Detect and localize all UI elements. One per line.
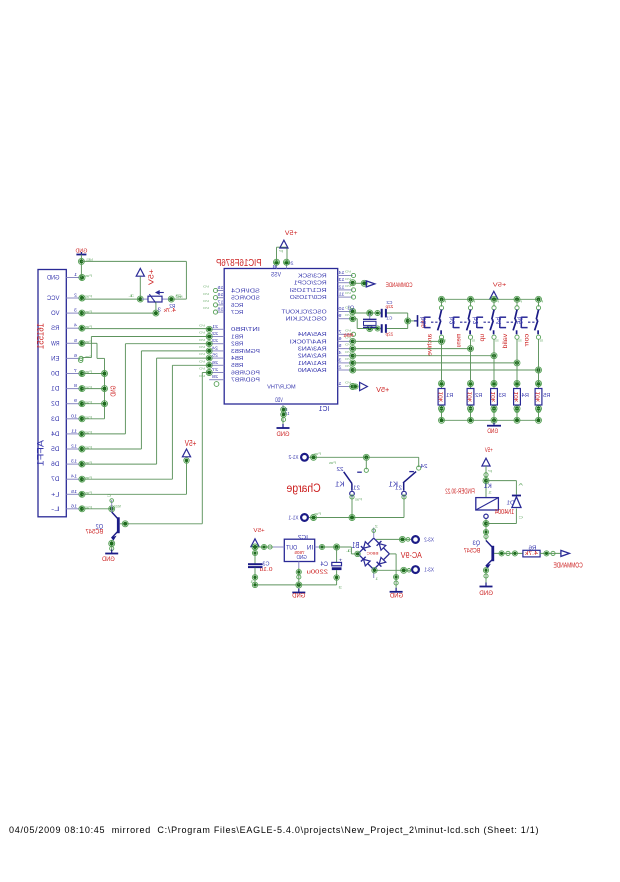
svg-text:b2: b2 [448, 317, 457, 325]
svg-text:Pas: Pas [84, 274, 92, 278]
wire +5V rail switch bank [439, 296, 542, 302]
wire L- pin16 to Q2 collector [82, 506, 115, 512]
wire RA to switch column b4 [353, 360, 520, 366]
svg-text:K1: K1 [483, 483, 491, 490]
IC1 pin 28 RB7 open circle [214, 382, 219, 387]
svg-text:11: 11 [338, 292, 345, 297]
svg-text:10: 10 [71, 413, 77, 419]
svg-text:2200u: 2200u [307, 569, 329, 575]
wire +5V to relay coil K1 [251, 466, 517, 590]
crystal Q1 [363, 313, 377, 329]
svg-text:15: 15 [71, 489, 77, 495]
svg-text:14: 14 [338, 270, 345, 275]
AFF1 pin 12 D5 [51, 444, 92, 454]
svg-text:1: 1 [375, 577, 378, 581]
svg-text:I/O: I/O [344, 364, 351, 368]
supply +5V at relay coil [482, 447, 493, 466]
svg-text:D6: D6 [51, 461, 60, 468]
svg-text:RB4: RB4 [231, 356, 243, 362]
svg-text:I/O: I/O [344, 270, 351, 274]
Q2 value BC547 [85, 529, 103, 536]
svg-text:I/O: I/O [344, 277, 351, 281]
AFF1 pin 5 RW [50, 338, 92, 348]
svg-text:RC7: RC7 [231, 310, 243, 316]
svg-text:I/O: I/O [198, 323, 205, 327]
IC1 pin 18 RC7 [202, 306, 243, 316]
svg-text:COMMANDE: COMMANDE [553, 561, 582, 569]
connector X1-1 pad [289, 512, 322, 521]
IC1 pin 4 RA2/AN2 [298, 350, 356, 360]
svg-text:EN: EN [51, 355, 60, 362]
microcontroller IC1 PIC16F876P box [224, 269, 338, 405]
AFF1 value label 161551 [36, 323, 46, 349]
IC1 pin 7 RA5/AN4 [298, 328, 356, 338]
wire +5V to IC2 OUT [252, 544, 273, 550]
svg-text:I/O: I/O [344, 284, 351, 288]
connector X3-1 pad [412, 566, 434, 573]
svg-text:13: 13 [71, 459, 77, 465]
svg-text:GND: GND [102, 556, 115, 563]
svg-text:GND: GND [75, 249, 87, 255]
AFF1 pin 4 RS [50, 323, 92, 333]
wire column b4 to resistor [514, 340, 520, 421]
svg-text:7: 7 [74, 368, 77, 374]
ground symbol GND at Q3 [479, 583, 493, 598]
svg-text:1N4004: 1N4004 [495, 509, 514, 516]
trimmer R2 [127, 291, 182, 314]
resistor R4 10k [514, 389, 529, 406]
b1 value archive [427, 334, 434, 357]
svg-text:11: 11 [71, 428, 77, 434]
svg-text:Pas: Pas [329, 461, 336, 465]
svg-text:VSS: VSS [271, 273, 281, 279]
svg-text:22p: 22p [385, 304, 393, 310]
svg-text:12: 12 [71, 444, 77, 450]
svg-text:OSC1/CLKIN: OSC1/CLKIN [286, 317, 327, 323]
svg-text:GND: GND [487, 428, 498, 435]
svg-text:27: 27 [211, 367, 218, 372]
svg-text:PGC/RB6: PGC/RB6 [231, 370, 260, 376]
capacitor C4 2200u polarized [307, 547, 343, 585]
svg-text:6: 6 [338, 336, 342, 341]
svg-text:K1: K1 [335, 481, 345, 488]
wire ground rail switch bank [439, 417, 542, 425]
svg-text:P: P [518, 299, 522, 303]
b1 name label [419, 317, 428, 325]
svg-text:1: 1 [338, 381, 342, 386]
svg-text:23: 23 [211, 338, 218, 343]
K1 value FINDER-30.22 [445, 488, 474, 496]
svg-text:C4: C4 [320, 562, 328, 568]
svg-text:BC547: BC547 [464, 548, 481, 555]
supply +5V near R2 [136, 268, 155, 285]
capacitor C1 [382, 316, 394, 338]
wire EN pin6 to PIC RB1 with open pin circle [79, 337, 210, 363]
svg-text:R2: R2 [475, 393, 482, 399]
wire X1-2 top rail [309, 454, 419, 460]
svg-text:10k: 10k [514, 392, 520, 403]
net label COMMANDE lower [553, 561, 582, 569]
IC1 pin 25 RB4 [198, 352, 243, 362]
svg-text:10k: 10k [439, 392, 445, 403]
svg-text:18: 18 [217, 307, 224, 312]
IC1 name label [319, 404, 330, 413]
svg-text:D2: D2 [51, 401, 60, 408]
AFF1 pin 14 D7 [51, 474, 92, 484]
svg-text:Q1: Q1 [348, 306, 355, 312]
svg-text:Pas: Pas [314, 452, 321, 456]
IC1 pin 14 RC3/SCK [298, 270, 356, 280]
svg-text:R3: R3 [499, 393, 506, 399]
svg-text:5: 5 [338, 343, 342, 348]
supply +5V at MCLR [360, 382, 390, 394]
svg-text:N$1: N$1 [86, 258, 93, 262]
svg-text:R1: R1 [446, 393, 453, 399]
wire PIC RB6 to Q2 base [120, 373, 209, 527]
net stub labels small [86, 258, 352, 553]
wire column b3 to resistor [491, 340, 497, 421]
port arrow COMMANDE lower [561, 550, 570, 556]
svg-text:9: 9 [74, 398, 77, 404]
b3 value up [479, 334, 486, 342]
svg-text:valid: valid [502, 334, 509, 349]
svg-text:PIC16F876P: PIC16F876P [216, 258, 262, 269]
supply +5V above switch bank [490, 283, 507, 300]
svg-text:I/O: I/O [202, 306, 209, 310]
svg-text:161551: 161551 [36, 323, 46, 349]
svg-text:3: 3 [338, 357, 342, 362]
svg-text:RB2: RB2 [231, 342, 243, 348]
svg-text:B80C: B80C [366, 551, 379, 555]
svg-text:10k: 10k [468, 392, 474, 403]
svg-text:RB5: RB5 [231, 363, 243, 369]
svg-text:0.1u: 0.1u [259, 567, 272, 573]
svg-text:SDO/RC5: SDO/RC5 [231, 296, 260, 302]
svg-text:b5: b5 [516, 317, 525, 325]
AFF1 pin 3 VO [51, 308, 92, 318]
svg-text:BC547: BC547 [85, 529, 103, 536]
svg-text:21: 21 [211, 324, 218, 329]
wire VCC pin2 to +5V and R2 [82, 277, 143, 303]
wire net RW D0-D3 GND bus [82, 343, 108, 419]
bridge rectifier B1 [358, 524, 389, 581]
IC1 pin 13 RC2/CCP1 [294, 277, 356, 287]
b4 value valid [502, 334, 509, 349]
svg-text:S: S [472, 339, 476, 343]
svg-text:26: 26 [211, 360, 218, 365]
ground symbol GND at IC2 [292, 589, 306, 600]
wire RA to switch column b1 [353, 338, 445, 344]
svg-text:9: 9 [338, 313, 342, 318]
svg-text:RA1/AN1: RA1/AN1 [298, 361, 327, 367]
IC2 value 7805 [294, 550, 305, 555]
svg-text:Pas: Pas [84, 295, 92, 299]
svg-text:+5V: +5V [493, 283, 507, 289]
connector X1-2 pad [289, 452, 322, 461]
svg-text:GND: GND [389, 593, 403, 600]
wire D6 pin13 to PIC RB4 [82, 358, 209, 464]
svg-text:RW: RW [50, 340, 59, 347]
plot footer text [9, 825, 539, 835]
svg-text:2: 2 [74, 293, 77, 299]
svg-text:4: 4 [338, 350, 342, 355]
svg-text:PGD/RB7: PGD/RB7 [231, 378, 260, 384]
svg-text:SDI/RC4: SDI/RC4 [231, 288, 260, 294]
svg-text:FINDER-30.22: FINDER-30.22 [445, 488, 474, 496]
svg-text:I/O: I/O [344, 343, 351, 347]
svg-text:GND: GND [292, 593, 306, 600]
svg-text:3: 3 [339, 586, 343, 590]
switch b2 [453, 299, 475, 342]
voltage regulator IC2 7805 box [273, 539, 322, 568]
svg-text:Pas: Pas [314, 512, 321, 516]
wire RA to switch column b2 [353, 346, 474, 352]
svg-text:INT/RB0: INT/RB0 [231, 327, 260, 333]
svg-text:X3-2: X3-2 [424, 537, 434, 543]
IC1 pin 17 RC6 [202, 299, 243, 309]
svg-text:VDD: VDD [275, 398, 283, 404]
svg-text:RA0/AN0: RA0/AN0 [298, 368, 327, 374]
supply +5V above IC1 [280, 230, 298, 248]
svg-text:15: 15 [217, 285, 224, 290]
B1 value [366, 551, 379, 555]
svg-text:25: 25 [211, 353, 218, 358]
connector AFF1 LCD module box [38, 270, 66, 517]
IC1 pin 3 RA1/AN1 [298, 357, 356, 367]
switch b3 [477, 299, 499, 342]
IC1 pin 16 SDO/RC5 [202, 292, 260, 302]
IC1 pin 24 PGM/RB3 [198, 345, 260, 355]
svg-text:2: 2 [338, 365, 342, 370]
AFF1 pin 6 EN [51, 353, 92, 363]
wire column b1 to resistor [439, 340, 445, 421]
wire IC2 IN net [319, 544, 356, 554]
IC1 VDD VSS top pins [271, 247, 294, 279]
wire bridge minus to ground [389, 554, 398, 589]
svg-text:17: 17 [217, 299, 224, 304]
svg-text:+5V: +5V [149, 269, 156, 285]
resistor R1 10k [438, 389, 453, 406]
ground symbol GND at bridge [389, 588, 403, 600]
svg-text:VCC: VCC [47, 295, 60, 302]
IC1 pin 1 MCLR/THV [267, 381, 356, 391]
wire wiper to VO pin3 [82, 302, 159, 316]
svg-text:R6: R6 [528, 545, 536, 551]
svg-text:B1: B1 [352, 540, 360, 550]
IC1 VSS bottom pin [275, 398, 290, 424]
svg-text:D0: D0 [51, 371, 60, 378]
wire D7 pin14 to PIC RB5 [82, 365, 209, 479]
svg-text:RC3/SCK: RC3/SCK [298, 273, 327, 279]
svg-text:IC1: IC1 [319, 404, 330, 413]
svg-text:MCLR/THV: MCLR/THV [267, 384, 296, 390]
wire column b5 to resistor [536, 340, 542, 421]
wire AC X3-2 [376, 536, 411, 542]
svg-text:+5V: +5V [184, 438, 196, 448]
svg-text:14: 14 [71, 474, 77, 480]
wire MCLR to +5V [353, 384, 358, 389]
wire Q2 emitter to ground [109, 540, 115, 551]
relay contact K1 second [395, 457, 428, 499]
R2 value 4.7k [163, 308, 176, 314]
svg-text:I/O: I/O [198, 359, 205, 363]
svg-text:I/O: I/O [344, 291, 351, 295]
b2 value menu [456, 334, 463, 348]
svg-text:L+: L+ [51, 491, 60, 498]
capacitor C3 0.1u [248, 550, 273, 585]
wire L+ pin15 to +5V [82, 462, 187, 494]
svg-text:1: 1 [127, 294, 135, 298]
transistor Q3 [486, 541, 493, 569]
svg-text:I/O: I/O [344, 381, 351, 385]
svg-text:P: P [443, 299, 447, 303]
svg-text:K1: K1 [388, 482, 398, 489]
svg-text:I/O: I/O [198, 352, 205, 356]
relay contact K1 first [329, 457, 369, 501]
wire RS pin4 to PIC RB0 [82, 328, 209, 330]
IC1 pin 26 RB5 [198, 359, 243, 369]
net label COMMANDE upper [386, 282, 413, 289]
wire AC X3-1 [372, 567, 411, 573]
svg-text:16: 16 [217, 292, 224, 297]
b4 name label [494, 317, 503, 325]
svg-text:+5V: +5V [253, 528, 265, 534]
IC1 pin 9 OSC1/CLKIN [286, 313, 356, 323]
ground symbol GND at Q2 [102, 550, 119, 564]
svg-text:I/O: I/O [202, 299, 209, 303]
svg-text:RC0/T1OSO: RC0/T1OSO [289, 295, 327, 301]
supply +5V at regulator output [251, 528, 265, 546]
svg-text:RC6: RC6 [231, 303, 243, 309]
svg-text:P: P [540, 299, 544, 303]
svg-text:4: 4 [74, 323, 77, 329]
ground symbol GND switch bank [487, 423, 501, 435]
IC1 pin 23 RB2 [198, 338, 243, 348]
svg-text:I/O: I/O [344, 328, 351, 332]
wire RA to switch column b3 [353, 353, 497, 359]
svg-text:D3: D3 [51, 416, 60, 423]
svg-text:GND: GND [110, 386, 117, 397]
transistor Q2 [106, 494, 118, 540]
svg-text:PGM/RB3: PGM/RB3 [231, 349, 260, 355]
svg-text:P: P [472, 299, 476, 303]
ground symbol GND at crystal [414, 315, 428, 328]
svg-text:R5: R5 [543, 393, 550, 399]
svg-text:22: 22 [337, 467, 344, 473]
svg-text:7: 7 [338, 329, 342, 334]
svg-text:C1: C1 [386, 316, 392, 321]
svg-text:6: 6 [74, 353, 77, 359]
resistor R5 10k [535, 389, 550, 406]
svg-text:up: up [479, 334, 486, 342]
IC2 name label [298, 535, 308, 541]
wire crystal caps to ground [405, 313, 417, 329]
svg-text:archive: archive [427, 334, 434, 357]
svg-text:N$16: N$16 [114, 504, 121, 508]
svg-text:10k: 10k [536, 392, 542, 403]
port arrow COMMANDE upper [366, 281, 375, 287]
AFF1 pin 10 D3 [51, 413, 92, 423]
IC1 pin 2 RA0/AN0 [298, 364, 356, 374]
IC1 pin 12 RC1/T1OSI [289, 284, 355, 294]
IC1 pin 6 RA4/T0CKI [289, 336, 356, 346]
b5 value corr [524, 334, 531, 347]
svg-text:I/O: I/O [202, 285, 209, 289]
B1 name label [352, 540, 360, 550]
Charge net label [287, 483, 321, 495]
svg-text:D4: D4 [51, 431, 60, 438]
svg-text:AFF1: AFF1 [36, 440, 46, 466]
wire RA to switch column b5 [353, 367, 542, 373]
svg-text:RA4/T0CKI: RA4/T0CKI [289, 339, 326, 345]
svg-text:+5V: +5V [484, 447, 493, 454]
wire OSC2 to crystal and C2 [353, 310, 408, 316]
svg-text:16: 16 [71, 503, 77, 509]
wire bridge plus to IN [355, 551, 360, 556]
resistor R3 10k [491, 389, 506, 406]
IC1 pin 15 SDI/RC4 [202, 285, 260, 295]
AFF1 pin 11 D4 [51, 428, 92, 438]
svg-text:AC-9V: AC-9V [400, 551, 422, 560]
b2 name label [448, 317, 457, 325]
svg-text:S: S [495, 339, 499, 343]
R2 name label [169, 304, 175, 310]
AFF1 pin 1 GND [47, 272, 92, 282]
svg-text:b4: b4 [494, 317, 503, 325]
switch b1 [424, 299, 446, 342]
svg-text:4MHz: 4MHz [343, 333, 353, 339]
supply +5V at L+ [182, 438, 196, 463]
svg-text:2: 2 [375, 524, 378, 528]
diode D1 1N4004 [507, 481, 524, 524]
capacitor C2 [382, 300, 394, 317]
AFF1 pin 13 D6 [51, 459, 92, 469]
Q2 name label [95, 524, 103, 531]
AFF1 pin 16 L- [51, 503, 92, 513]
svg-text:I/O: I/O [198, 345, 205, 349]
svg-text:I/O: I/O [344, 313, 351, 317]
b5 name label [516, 317, 525, 325]
svg-text:I/O: I/O [202, 292, 209, 296]
IC1 pin 28 PGD/RB7 [198, 374, 260, 384]
svg-text:RC2/CCP1: RC2/CCP1 [294, 281, 327, 287]
wire Q3 base to resistor R6 [494, 551, 523, 556]
svg-text:N$2: N$2 [175, 295, 182, 299]
svg-text:COMMANDE: COMMANDE [386, 282, 413, 289]
svg-text:I/O: I/O [198, 331, 205, 335]
AFF1 name label [36, 440, 46, 466]
svg-text:1: 1 [74, 272, 77, 278]
svg-text:RB1: RB1 [231, 334, 243, 340]
svg-text:GND: GND [479, 590, 493, 597]
Q1 name label [348, 306, 355, 312]
AFF1 pin 8 D1 [51, 383, 92, 393]
b3 name label [471, 317, 480, 325]
svg-text:b1: b1 [419, 317, 428, 325]
wire coil bottom to Q3 collector [483, 519, 516, 541]
svg-text:5: 5 [74, 338, 77, 344]
svg-text:R4: R4 [522, 393, 529, 399]
IC1 pin 10 OSC2/CLKOUT [281, 306, 356, 316]
svg-text:IN: IN [307, 546, 314, 552]
svg-text:21: 21 [353, 486, 360, 492]
svg-text:I/O: I/O [344, 357, 351, 361]
connector X3-2 pad [412, 536, 434, 543]
svg-text:1: 1 [488, 490, 492, 494]
svg-text:GND: GND [276, 431, 289, 438]
svg-text:I/O: I/O [344, 350, 351, 354]
svg-text:GND: GND [297, 555, 307, 561]
